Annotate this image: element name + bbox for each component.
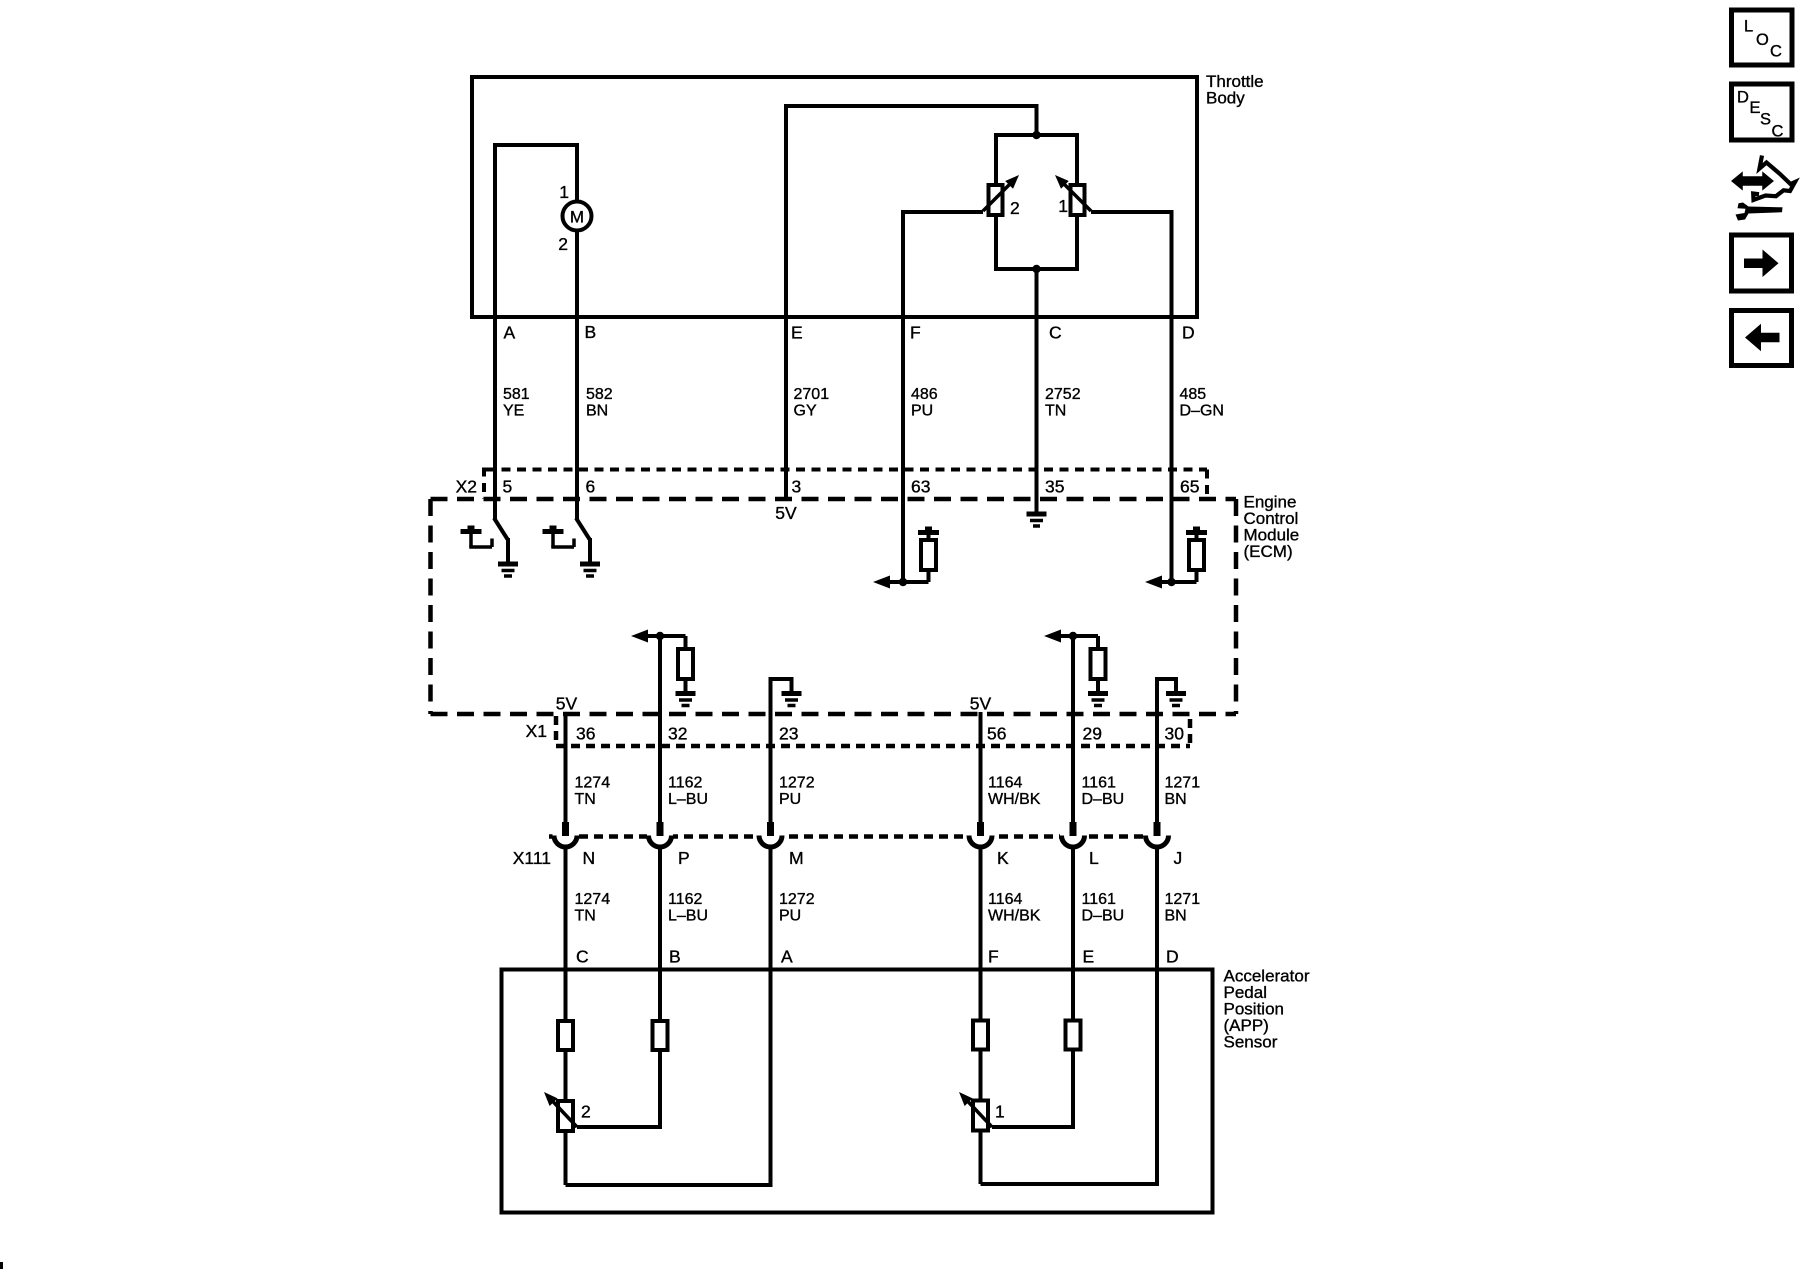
svg-text:X2: X2 [456,477,477,497]
svg-text:C: C [1049,323,1062,343]
svg-text:TN: TN [575,908,596,925]
svg-text:1: 1 [995,1102,1005,1122]
svg-text:BN: BN [1165,791,1187,808]
svg-text:BN: BN [586,403,608,420]
svg-text:2: 2 [581,1102,591,1122]
svg-text:F: F [910,323,921,343]
svg-text:PU: PU [779,791,801,808]
svg-text:1271: 1271 [1165,775,1201,792]
svg-text:1: 1 [1058,196,1068,216]
svg-text:1161: 1161 [1082,775,1117,792]
svg-text:B: B [585,322,597,342]
svg-text:Body: Body [1206,89,1245,108]
svg-text:D–BU: D–BU [1082,791,1125,808]
svg-text:WH/BK: WH/BK [988,908,1041,925]
svg-text:S: S [1760,111,1771,129]
svg-text:582: 582 [586,386,613,403]
svg-text:P: P [678,848,690,868]
svg-text:L–BU: L–BU [668,908,708,925]
svg-text:K: K [997,848,1009,868]
svg-text:D: D [1182,323,1195,343]
svg-text:1164: 1164 [988,891,1023,908]
svg-text:PU: PU [911,403,933,420]
svg-text:PU: PU [779,908,801,925]
svg-text:32: 32 [668,724,687,744]
svg-text:3: 3 [792,477,802,497]
svg-text:63: 63 [911,477,930,497]
svg-text:1162: 1162 [668,891,703,908]
svg-text:56: 56 [987,724,1006,744]
svg-text:GY: GY [794,403,817,420]
svg-text:D–GN: D–GN [1180,403,1224,420]
svg-text:36: 36 [576,724,595,744]
svg-text:2701: 2701 [794,386,830,403]
svg-text:J: J [1174,848,1183,868]
svg-text:Sensor: Sensor [1224,1033,1278,1052]
svg-text:O: O [1756,31,1769,49]
svg-text:TN: TN [575,791,596,808]
svg-text:N: N [583,848,596,868]
svg-text:D: D [1166,947,1179,967]
svg-text:1272: 1272 [779,891,815,908]
svg-text:1271: 1271 [1165,891,1201,908]
svg-text:6: 6 [586,477,596,497]
svg-text:YE: YE [503,403,524,420]
svg-text:M: M [789,848,804,868]
svg-text:5V: 5V [775,503,797,523]
svg-text:2: 2 [1010,198,1020,218]
svg-text:A: A [504,323,516,343]
svg-text:E: E [1750,99,1761,117]
svg-text:2: 2 [558,234,568,254]
svg-text:X1: X1 [526,721,547,741]
svg-text:581: 581 [503,386,530,403]
svg-text:L–BU: L–BU [668,791,708,808]
svg-text:35: 35 [1045,477,1064,497]
svg-text:30: 30 [1165,724,1185,744]
svg-text:D: D [1737,89,1749,107]
svg-text:1274: 1274 [575,775,611,792]
svg-text:1162: 1162 [668,775,703,792]
svg-text:1274: 1274 [575,891,611,908]
svg-text:M: M [570,208,584,227]
svg-text:485: 485 [1180,386,1207,403]
svg-text:X111: X111 [513,848,551,868]
svg-text:BN: BN [1165,908,1187,925]
svg-text:D–BU: D–BU [1082,908,1125,925]
svg-text:1: 1 [559,182,569,202]
svg-text:1164: 1164 [988,775,1023,792]
svg-text:1272: 1272 [779,775,815,792]
svg-text:L: L [1744,18,1753,36]
svg-text:5V: 5V [556,694,578,714]
svg-text:5V: 5V [970,694,992,714]
svg-text:2752: 2752 [1045,386,1081,403]
svg-text:29: 29 [1083,724,1102,744]
svg-text:E: E [1083,947,1095,967]
svg-text:A: A [781,947,793,967]
svg-text:5: 5 [503,477,513,497]
svg-text:1161: 1161 [1082,891,1117,908]
svg-text:WH/BK: WH/BK [988,791,1041,808]
svg-text:C: C [1772,123,1784,141]
svg-text:C: C [1770,43,1782,61]
svg-text:L: L [1089,848,1099,868]
svg-text:65: 65 [1180,477,1199,497]
svg-text:E: E [791,323,803,343]
svg-text:B: B [669,947,681,967]
svg-text:(ECM): (ECM) [1244,542,1293,561]
svg-text:23: 23 [779,724,798,744]
svg-text:486: 486 [911,386,938,403]
svg-text:C: C [576,947,589,967]
svg-text:TN: TN [1045,403,1066,420]
svg-text:F: F [988,947,999,967]
